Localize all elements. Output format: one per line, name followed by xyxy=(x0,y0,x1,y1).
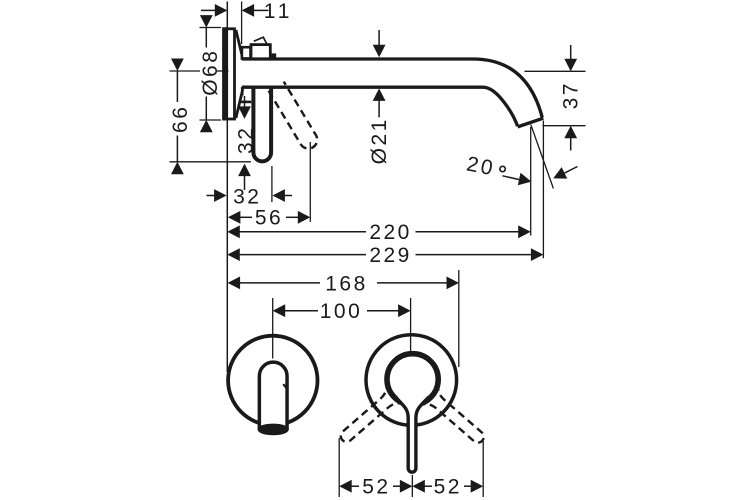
dimension 52 right xyxy=(412,441,483,499)
svg-text:220: 220 xyxy=(369,221,412,244)
escutcheon circle left (front view) xyxy=(228,336,317,425)
spout top outline xyxy=(242,59,542,118)
neck step top xyxy=(242,47,251,58)
escutcheon circle right (front view) xyxy=(366,335,457,426)
dimension 220 xyxy=(227,127,530,244)
svg-text:66: 66 xyxy=(169,105,192,133)
dimension 32 horizontal xyxy=(207,166,293,209)
spout front view xyxy=(259,362,288,434)
svg-text:52: 52 xyxy=(434,476,462,499)
housing corner nub xyxy=(271,53,277,59)
dashed lever right position (front) xyxy=(417,381,492,452)
lever handle side view xyxy=(253,88,271,161)
dimension Ø68 xyxy=(198,15,222,132)
dimension 52 left xyxy=(339,438,412,499)
svg-text:168: 168 xyxy=(325,272,368,295)
dimension 168 xyxy=(228,270,459,367)
svg-text:11: 11 xyxy=(264,0,294,23)
svg-text:52: 52 xyxy=(362,476,390,499)
svg-text:32: 32 xyxy=(233,186,261,209)
dashed lever swung position (side) xyxy=(269,82,321,152)
raised lever tip mark xyxy=(254,37,267,43)
dimension 56 xyxy=(228,142,310,230)
dimension 11 xyxy=(201,0,294,44)
handle ring front view xyxy=(387,354,438,405)
dimension 229 xyxy=(227,121,543,268)
dimension 37 xyxy=(525,45,586,151)
20 degree tilted line xyxy=(531,125,554,189)
spout outlet face xyxy=(518,118,544,127)
handle stem front view xyxy=(395,397,429,473)
svg-text:229: 229 xyxy=(369,244,412,267)
20 degree left arrow xyxy=(502,173,532,188)
cartridge housing xyxy=(251,45,270,59)
svg-text:56: 56 xyxy=(255,207,283,230)
svg-text:32: 32 xyxy=(234,126,257,154)
20 degree right arrow xyxy=(550,167,577,185)
svg-text:Ø68: Ø68 xyxy=(199,49,222,96)
wall reference line xyxy=(226,2,228,373)
dimension 100 xyxy=(273,298,411,359)
neck step bottom xyxy=(241,87,244,96)
dimension 66 xyxy=(169,59,251,175)
svg-text:100: 100 xyxy=(320,300,363,323)
dimension 32 vertical xyxy=(234,96,257,190)
spout bottom outline xyxy=(242,87,518,126)
svg-text:Ø21: Ø21 xyxy=(368,117,391,164)
escutcheon plate side view xyxy=(222,27,234,120)
dashed lever left position (front) xyxy=(332,381,407,452)
dimension Ø21 xyxy=(368,30,391,164)
escutcheon trumpet profile xyxy=(236,30,243,118)
svg-text:37: 37 xyxy=(560,81,583,109)
